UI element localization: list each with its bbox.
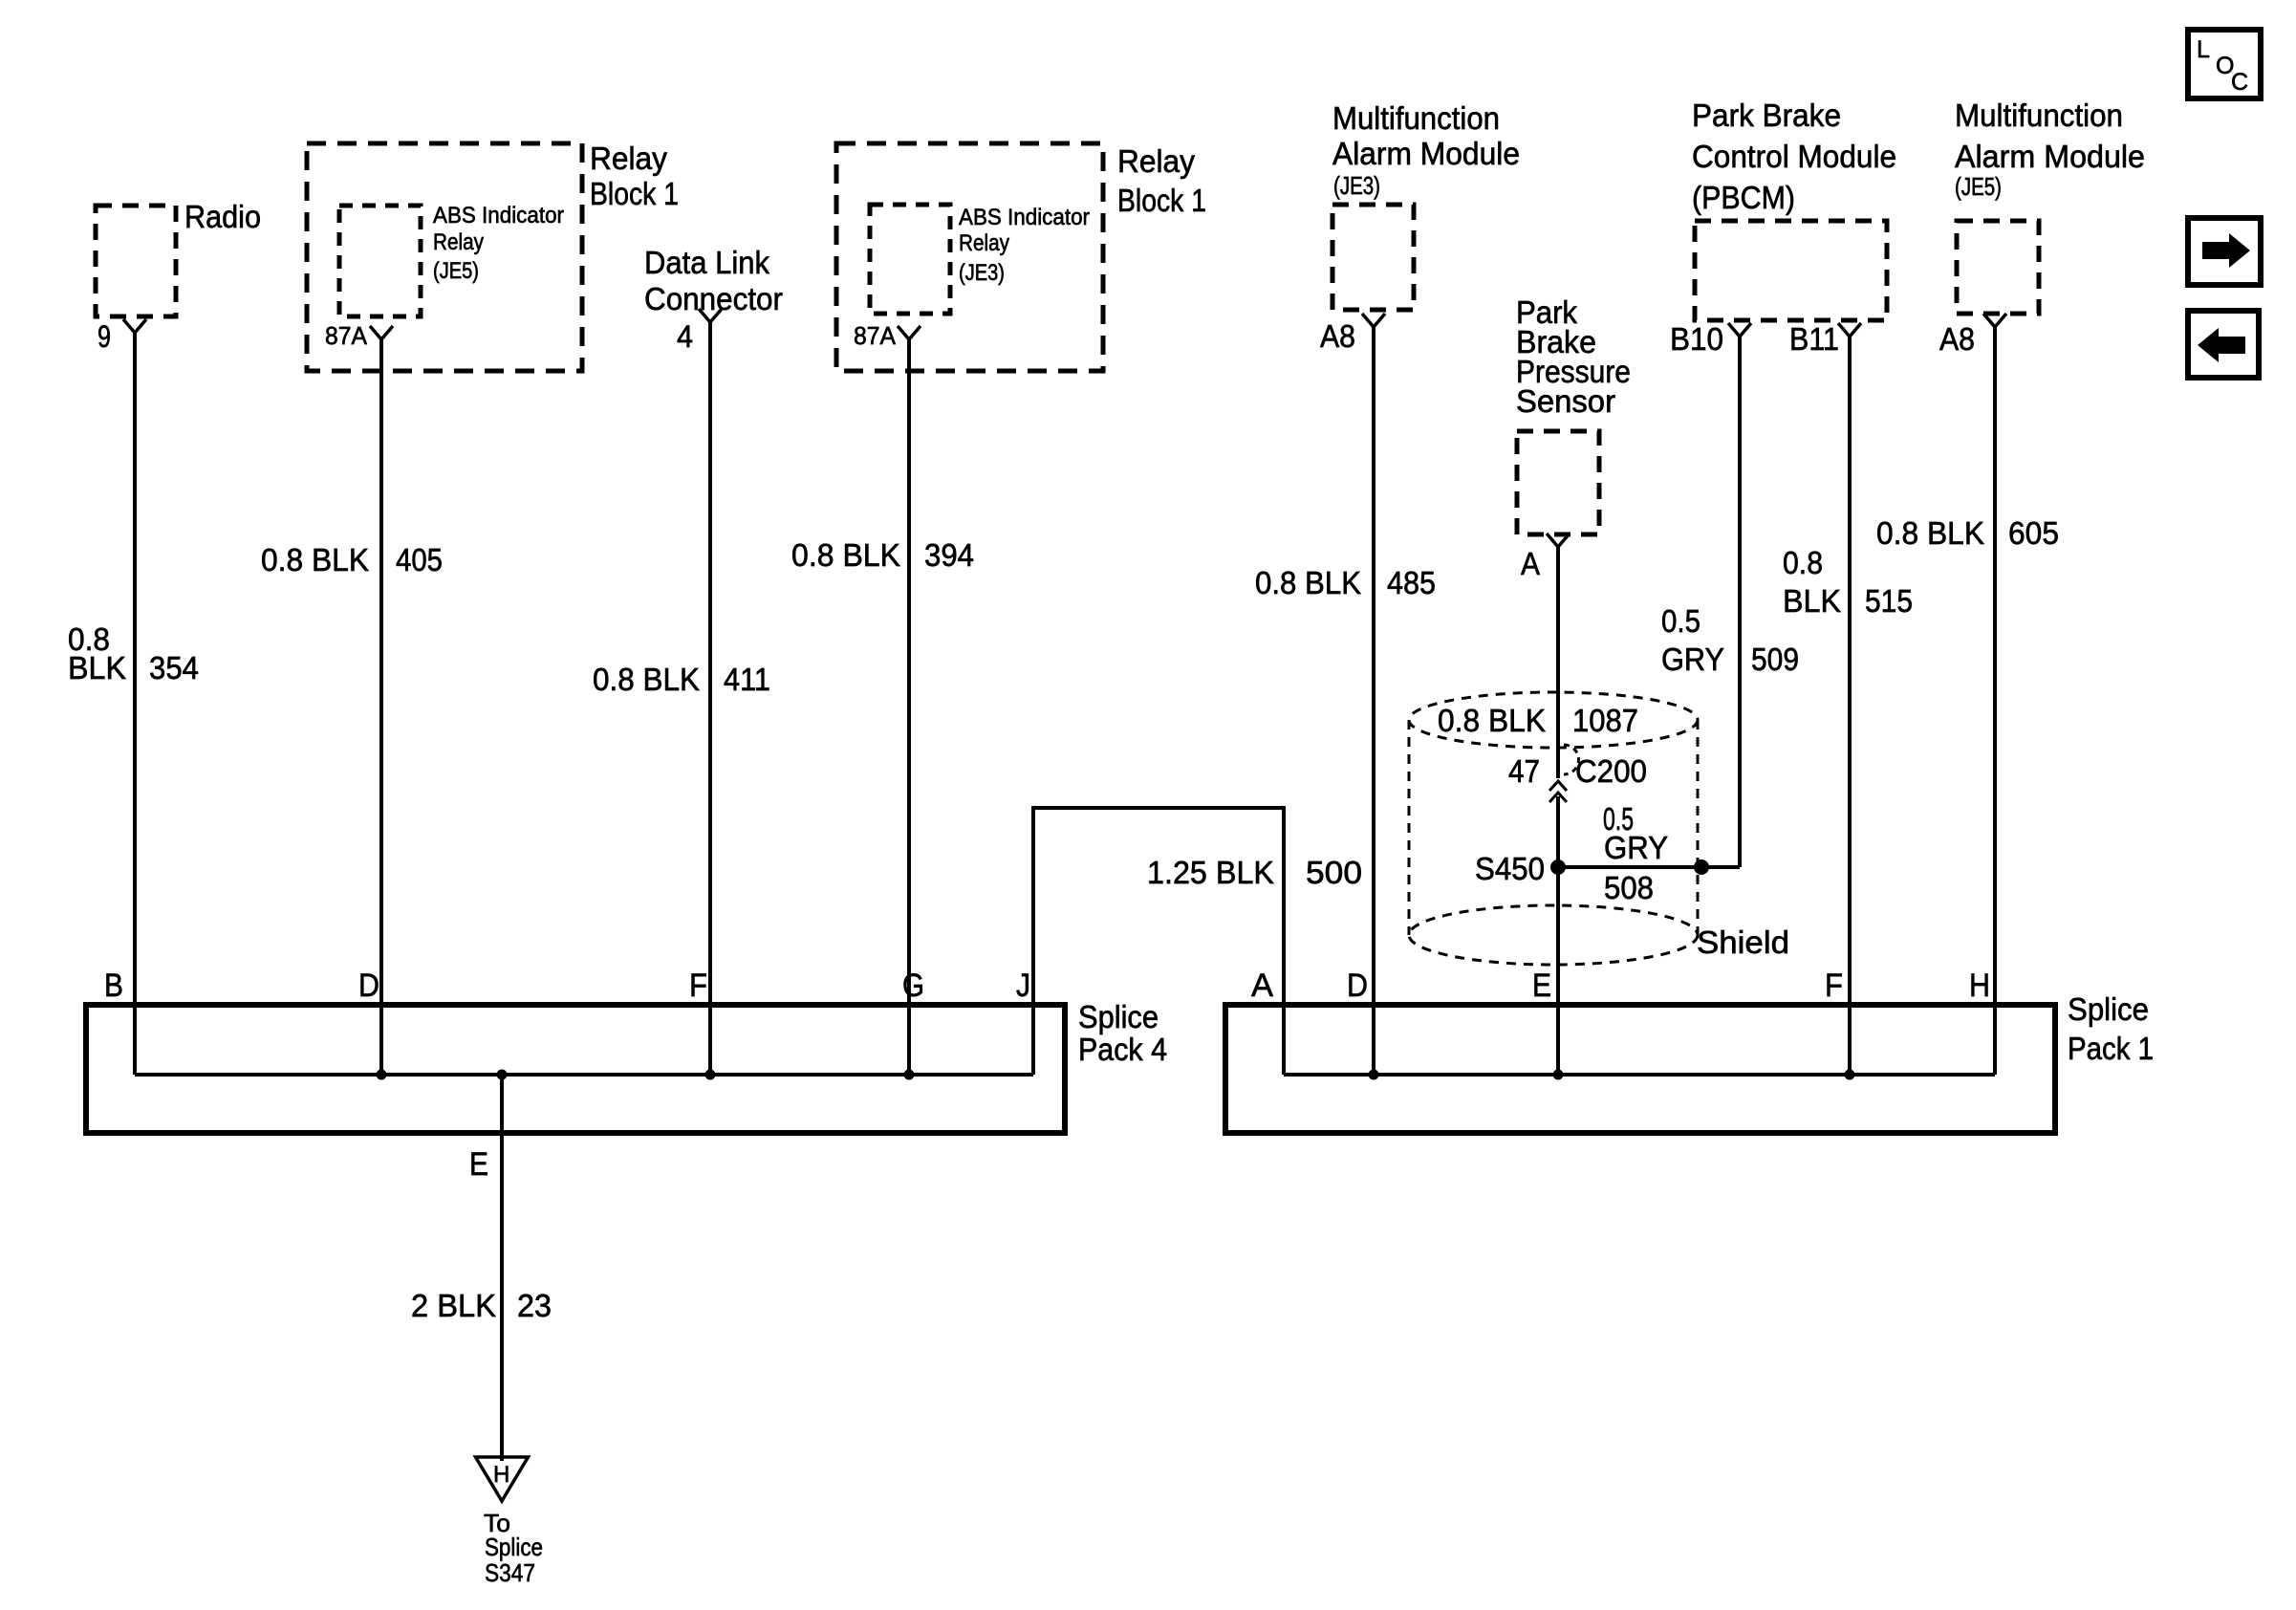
svg-text:(JE5): (JE5) — [433, 258, 479, 284]
svg-text:2 BLK: 2 BLK — [411, 1288, 496, 1323]
wire 1087 (sensor A to connector C200) — [1556, 547, 1560, 778]
svg-text:0.8 BLK: 0.8 BLK — [1438, 703, 1546, 738]
legend arrow left box — [2188, 311, 2259, 378]
wire 23 (Splice Pack 4 E to splice S347) — [500, 1075, 504, 1461]
junction (shield to wire 508) — [1694, 859, 1709, 875]
module Park Brake Control Module PBCM (dashed box) — [1695, 221, 1887, 320]
svg-text:405: 405 — [396, 542, 443, 577]
svg-text:L: L — [2197, 36, 2210, 63]
splice pack 1 (outer box) — [1225, 1005, 2055, 1133]
svg-text:B11: B11 — [1789, 321, 1839, 357]
wire 508 (S450 to shield drain to B10 wire) — [1558, 865, 1740, 869]
svg-text:Splice: Splice — [1078, 999, 1159, 1034]
svg-text:354: 354 — [149, 650, 199, 685]
svg-text:509: 509 — [1751, 642, 1799, 677]
svg-text:E: E — [469, 1146, 488, 1183]
svg-text:B10: B10 — [1670, 321, 1723, 357]
module Multifunction Alarm Module JE5 (dashed box) — [1957, 221, 2039, 314]
svg-text:H: H — [493, 1462, 509, 1488]
svg-text:F: F — [1825, 968, 1843, 1004]
svg-text:A8: A8 — [1320, 318, 1355, 354]
svg-text:S450: S450 — [1475, 851, 1545, 886]
relay block 1 (right, dashed outer box) — [836, 143, 1103, 371]
svg-text:0.8 BLK: 0.8 BLK — [593, 662, 700, 697]
svg-text:Relay: Relay — [959, 230, 1009, 256]
pin A8 (Multifunction Alarm Module JE3) — [1362, 314, 1385, 327]
svg-text:C: C — [2231, 69, 2248, 96]
pin A8 (Multifunction Alarm Module JE5) — [1983, 314, 2006, 327]
loc legend box — [2188, 30, 2261, 98]
svg-text:485: 485 — [1387, 565, 1436, 600]
svg-text:394: 394 — [924, 537, 974, 573]
relay ABS Indicator Relay JE3 (inner dashed box) — [870, 205, 950, 314]
splice pack 4 (outer box) — [86, 1005, 1065, 1133]
svg-text:Alarm Module: Alarm Module — [1955, 139, 2145, 174]
svg-text:87A: 87A — [325, 321, 368, 350]
svg-text:Splice: Splice — [485, 1533, 543, 1561]
svg-text:GRY: GRY — [1661, 642, 1724, 677]
svg-text:1.25 BLK: 1.25 BLK — [1147, 855, 1274, 890]
svg-text:S347: S347 — [485, 1558, 535, 1587]
svg-text:ABS Indicator: ABS Indicator — [433, 203, 564, 228]
splice pack 1 bus bar — [1284, 1073, 1995, 1077]
svg-text:Block 1: Block 1 — [1117, 183, 1206, 218]
wire 509 (PBCM B10 to wire 508) — [1738, 337, 1742, 867]
off-page connector H (to splice S347) — [476, 1457, 529, 1501]
svg-text:(JE5): (JE5) — [1955, 172, 2002, 201]
pin A (Park Brake Pressure Sensor) — [1547, 533, 1570, 547]
svg-text:D: D — [1347, 968, 1368, 1004]
wire 354 (Radio pin 9 to Splice Pack 4 B) — [133, 333, 137, 1075]
svg-text:C200: C200 — [1575, 753, 1647, 789]
svg-text:Relay: Relay — [1117, 143, 1195, 179]
splice S450 (junction dot) — [1550, 859, 1566, 875]
svg-text:Multifunction: Multifunction — [1955, 98, 2123, 133]
svg-text:A: A — [1521, 546, 1540, 581]
wire 47 (C200 to S450 to Splice Pack 1 E) — [1556, 796, 1560, 1075]
module Multifunction Alarm Module JE3 (dashed box) — [1332, 205, 1414, 310]
svg-text:0.8 BLK: 0.8 BLK — [261, 542, 369, 577]
svg-text:ABS Indicator: ABS Indicator — [959, 205, 1090, 230]
svg-text:Alarm Module: Alarm Module — [1332, 136, 1520, 171]
svg-text:Splice: Splice — [2068, 991, 2149, 1027]
svg-text:23: 23 — [517, 1288, 552, 1323]
svg-text:Pack 1: Pack 1 — [2068, 1031, 2154, 1066]
pin 87A (ABS Indicator Relay JE3) — [898, 326, 921, 339]
svg-text:Multifunction: Multifunction — [1332, 100, 1500, 136]
svg-text:D: D — [358, 968, 379, 1004]
svg-text:Shield: Shield — [1697, 925, 1789, 960]
pin 87A (ABS Indicator Relay JE5) — [370, 326, 393, 339]
svg-text:508: 508 — [1604, 870, 1654, 905]
wire 394 (ABS JE3 87A to Splice Pack 4 G) — [907, 339, 911, 1075]
svg-text:Radio: Radio — [184, 199, 261, 234]
legend arrow right box — [2188, 218, 2261, 285]
wire 485 (JE3 A8 to Splice Pack 1 D) — [1372, 327, 1375, 1075]
svg-text:BLK: BLK — [1783, 583, 1841, 619]
svg-text:Sensor: Sensor — [1516, 383, 1615, 419]
splice pack 4 bus bar — [135, 1073, 1033, 1077]
svg-text:47: 47 — [1508, 753, 1540, 789]
svg-text:Park Brake: Park Brake — [1692, 98, 1841, 133]
pin 9 (Radio) — [123, 319, 146, 333]
svg-text:4: 4 — [677, 319, 693, 354]
svg-text:Relay: Relay — [590, 141, 667, 176]
svg-text:(PBCM): (PBCM) — [1692, 180, 1795, 215]
pin 4 (Data Link Connector) — [699, 309, 722, 322]
connector C200 (in-line, pin 47) — [1549, 781, 1567, 791]
svg-text:Data Link: Data Link — [644, 245, 769, 280]
wire 515 (PBCM B11 to Splice Pack 1 F) — [1848, 337, 1852, 1075]
svg-text:J: J — [1016, 968, 1030, 1004]
svg-text:(JE3): (JE3) — [959, 260, 1005, 286]
shield (dashed cylinder) — [1409, 692, 1698, 748]
connector Radio (dashed box) — [96, 206, 176, 316]
relay ABS Indicator Relay JE5 (inner dashed box) — [339, 206, 421, 316]
wire 605 (JE5 A8 to Splice Pack 1 H) — [1993, 327, 1997, 1075]
svg-text:87A: 87A — [854, 321, 897, 350]
svg-text:Pack 4: Pack 4 — [1078, 1032, 1167, 1067]
pin B11 (PBCM) — [1838, 323, 1861, 337]
sensor Park Brake Pressure Sensor (dashed box) — [1517, 431, 1599, 534]
svg-text:411: 411 — [724, 662, 770, 697]
svg-text:0.5: 0.5 — [1661, 603, 1700, 639]
svg-text:G: G — [902, 968, 924, 1004]
svg-text:Connector: Connector — [644, 281, 783, 316]
svg-text:515: 515 — [1865, 583, 1913, 619]
svg-text:GRY: GRY — [1604, 830, 1668, 865]
svg-text:A8: A8 — [1939, 321, 1975, 357]
svg-text:9: 9 — [97, 319, 111, 354]
svg-text:605: 605 — [2008, 515, 2059, 551]
svg-text:H: H — [1969, 968, 1990, 1004]
svg-text:0.8 BLK: 0.8 BLK — [791, 537, 900, 573]
svg-text:F: F — [689, 968, 707, 1004]
svg-text:1087: 1087 — [1572, 703, 1638, 738]
svg-text:B: B — [104, 968, 123, 1004]
wire 405 (ABS JE5 87A to Splice Pack 4 D) — [379, 339, 383, 1075]
svg-text:0.8 BLK: 0.8 BLK — [1876, 515, 1984, 551]
svg-text:Relay: Relay — [433, 229, 484, 255]
svg-text:0.8: 0.8 — [1783, 545, 1823, 580]
svg-text:E: E — [1532, 968, 1551, 1004]
pin B10 (PBCM) — [1728, 323, 1751, 337]
wire 500 (Splice Pack 4 J to Splice Pack 1 A) — [1033, 808, 1284, 1075]
svg-text:500: 500 — [1306, 855, 1362, 890]
svg-text:A: A — [1251, 968, 1273, 1004]
wire 411 (DLC pin 4 to Splice Pack 4 F) — [708, 322, 712, 1075]
relay block 1 (left, dashed outer box) — [307, 143, 582, 371]
svg-text:Control Module: Control Module — [1692, 139, 1896, 174]
svg-text:0.8 BLK: 0.8 BLK — [1255, 565, 1361, 600]
svg-text:(JE3): (JE3) — [1333, 171, 1380, 200]
svg-text:BLK: BLK — [68, 650, 126, 685]
svg-text:Block 1: Block 1 — [590, 176, 679, 211]
